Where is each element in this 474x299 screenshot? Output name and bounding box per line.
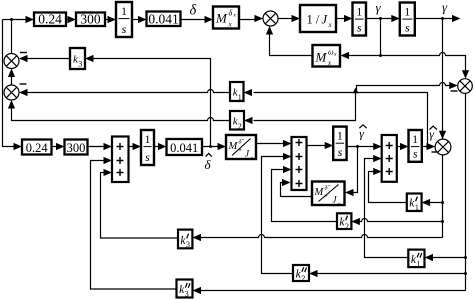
svg-text:x: x bbox=[337, 202, 341, 208]
node epsilon1-k1p junction bbox=[441, 201, 444, 204]
wire k2 output to S3 bottom with hop bbox=[12, 109, 231, 121]
arrow into integrator 1/s (roll rate) bbox=[344, 15, 353, 22]
block k3-doubleprime bbox=[177, 280, 193, 299]
summer S4 (angle comparator) bbox=[435, 139, 451, 155]
minus sign at S4 left input bbox=[432, 151, 439, 153]
wire epsilon2 to k2pp bbox=[318, 273, 466, 275]
wire k1pp output to adder A3 input 2 bbox=[365, 159, 409, 258]
block integrator 1/s (observer angle) bbox=[409, 130, 422, 162]
arrow into k2p input bbox=[351, 218, 360, 225]
block M_x^delta_x (control moment) bbox=[213, 7, 239, 29]
wire epsilon2 bottom to k3pp bbox=[201, 290, 466, 292]
block k2-prime bbox=[337, 213, 351, 231]
minus sign at S5 left input bbox=[451, 90, 458, 92]
arrow gamma output to right bbox=[452, 15, 461, 22]
arrow into A3 input 2 bbox=[373, 155, 382, 162]
block M^d/Jx observer control moment bbox=[226, 135, 256, 162]
block M^w/Jx observer damping moment bbox=[312, 182, 345, 208]
svg-text:2: 2 bbox=[301, 274, 305, 283]
svg-text:0.24: 0.24 bbox=[38, 12, 62, 27]
arrow into M/J block 1 bbox=[218, 143, 227, 150]
svg-text:M: M bbox=[215, 11, 228, 26]
arrow into block 0.24 (plant) bbox=[26, 16, 35, 23]
summer S2 (upper left) bbox=[4, 54, 19, 69]
svg-text:M: M bbox=[314, 187, 325, 198]
wire M/J1 output to adder A2 bbox=[256, 143, 284, 145]
svg-text:2: 2 bbox=[345, 222, 349, 231]
arrow into block 0.041 (plant) bbox=[138, 16, 147, 23]
svg-text:1: 1 bbox=[417, 259, 421, 268]
wire epsilon1 to k1p bbox=[430, 202, 443, 204]
wire to Mx^w input bbox=[348, 55, 381, 57]
arrow into A1 input 2 bbox=[104, 157, 113, 164]
wire gamma branch down into S4 bbox=[442, 19, 444, 132]
svg-text:1: 1 bbox=[337, 129, 343, 143]
wire Mx^w output to summer S1 bbox=[270, 34, 313, 56]
block k1-doubleprime bbox=[408, 250, 424, 269]
svg-text:300: 300 bbox=[80, 12, 101, 27]
svg-text:1: 1 bbox=[356, 5, 362, 19]
wire epsilon1 to k2p with hop bbox=[359, 219, 443, 222]
wire 0.24 to 300 bbox=[66, 19, 69, 21]
wire k2pp output to adder A2 input 2 bbox=[262, 157, 294, 274]
arrow into block Mx^dx bbox=[205, 16, 214, 23]
wire u-bus left vertical down to observer input bbox=[3, 20, 15, 147]
wire gamma-dot between integrators bbox=[366, 18, 393, 20]
arrow into integrator 1/s (observer rate) bbox=[325, 142, 334, 149]
svg-text:γ: γ bbox=[376, 0, 382, 15]
svg-text:1: 1 bbox=[415, 203, 419, 212]
arrow into adder A2 input 1 bbox=[283, 140, 292, 147]
block integrator 1/s (roll angle) bbox=[400, 3, 415, 36]
wire k3 output to S2 bbox=[27, 58, 70, 60]
arrow into summer S1 bottom bbox=[266, 26, 273, 35]
svg-text:δ: δ bbox=[190, 3, 197, 19]
node u junction at top-left bbox=[10, 18, 13, 21]
wire u-bus top horizontal bbox=[3, 19, 27, 21]
svg-text:x: x bbox=[250, 156, 254, 162]
wire bus branch to comparator S5 with hop bbox=[357, 83, 451, 93]
arrow into integrator 1/s (roll angle) bbox=[391, 15, 400, 22]
wire gamma-dot branch down bbox=[380, 19, 382, 56]
arrow into k1 input bbox=[244, 89, 253, 96]
wire Mx^dx to summer S1 bbox=[239, 19, 256, 21]
block 300 (plant gain) bbox=[76, 12, 105, 27]
arrow into block 0.24 (observer) bbox=[14, 143, 23, 150]
svg-text:1: 1 bbox=[404, 5, 410, 19]
svg-text:γ: γ bbox=[442, 0, 448, 15]
arrow into 0.041 (observer) bbox=[158, 143, 167, 150]
wire 1/Jx to rate integrator bbox=[336, 18, 346, 20]
svg-text:*: * bbox=[239, 149, 242, 155]
wire A2 to rate integrator (observer) bbox=[307, 145, 327, 147]
wire 0.24 to 300 (observer) bbox=[52, 146, 58, 148]
svg-text:0.24: 0.24 bbox=[26, 141, 49, 155]
node epsilon1-k2p junction bbox=[441, 220, 444, 223]
arrow into integrator 1/s (observer actuator) bbox=[133, 143, 142, 150]
block k3 bbox=[70, 48, 85, 69]
block k1-prime bbox=[407, 194, 422, 213]
block 0.041 (plant gain) bbox=[147, 12, 181, 27]
wire epsilon2 vertical from S5 bottom bbox=[465, 93, 467, 290]
svg-text:3: 3 bbox=[78, 60, 82, 69]
adder A1 (observer actuator sum) bbox=[112, 137, 129, 183]
block k2-doubleprime bbox=[293, 265, 309, 283]
arrow junction marker on bus bbox=[352, 88, 358, 93]
summer S3 (lower left) bbox=[4, 85, 19, 100]
node epsilon2-k1pp junction bbox=[464, 256, 467, 259]
block integrator 1/s (roll rate) bbox=[353, 3, 367, 36]
arrow into k1p input bbox=[422, 199, 431, 206]
node gamma-dot junction bbox=[379, 17, 382, 20]
block k2 bbox=[230, 111, 244, 131]
svg-text:1 /: 1 / bbox=[307, 13, 320, 27]
svg-text:1: 1 bbox=[121, 4, 127, 18]
minus sign at S3 bbox=[20, 83, 27, 85]
wire integrator to 0.041 (observer) bbox=[154, 146, 160, 148]
svg-text:s: s bbox=[145, 150, 150, 164]
svg-text:0.041: 0.041 bbox=[170, 141, 198, 155]
svg-text:300: 300 bbox=[67, 141, 86, 155]
arrow into adder A3 input 1 bbox=[373, 143, 382, 150]
wire k2p output to adder A2 input 3 bbox=[272, 170, 338, 222]
svg-text:3: 3 bbox=[185, 290, 189, 299]
arrow into S3 right bbox=[19, 89, 28, 96]
wire S2 output up to u-bus bbox=[11, 20, 13, 54]
arrow into S4 top bbox=[439, 131, 446, 140]
wire k3 input from delta-hat branch bbox=[93, 59, 211, 147]
svg-text:δ: δ bbox=[205, 157, 212, 172]
arrow into block 300 bbox=[68, 16, 77, 23]
wire epsilon2 to k1pp bbox=[433, 257, 466, 259]
svg-text:0.041: 0.041 bbox=[148, 12, 178, 27]
wire epsilon1 to k3p with hops bbox=[201, 235, 443, 238]
wire k1 output to S3 with hop bbox=[28, 90, 231, 93]
block integrator 1/s (observer actuator) bbox=[141, 130, 154, 165]
svg-text:s: s bbox=[413, 147, 418, 161]
wire 300 to actuator integrator bbox=[105, 19, 109, 21]
wire S3 output up into S2 bbox=[11, 77, 13, 85]
svg-text:x: x bbox=[333, 52, 337, 58]
wire 300 to adder A1 bbox=[88, 146, 105, 148]
arrow into comparator S4 left bbox=[427, 143, 436, 150]
arrow into M/J2 right side bbox=[345, 189, 354, 196]
wire delta from 0.041 to Mx^dx bbox=[181, 19, 207, 21]
wire k3pp output to adder A1 input 2 bbox=[91, 161, 177, 290]
arrow into k2pp input bbox=[309, 270, 318, 277]
svg-text:3: 3 bbox=[186, 240, 190, 249]
summer S5 (rate comparator) bbox=[458, 79, 473, 94]
svg-text:δ: δ bbox=[229, 9, 233, 18]
arrow into S3 bottom bbox=[8, 100, 15, 109]
wire M/J2 output to adder A2 input 4 bbox=[281, 183, 313, 197]
arrow into A1 input 3 bbox=[104, 169, 113, 176]
wire k3p output to adder A1 input 3 bbox=[101, 173, 179, 239]
arrow into S2 right bbox=[19, 55, 28, 62]
wire M/J2 input from gamma-dot-hat bbox=[353, 147, 358, 193]
wire gamma-hat bus up and left to k1 bbox=[254, 93, 428, 147]
block k1 bbox=[230, 82, 244, 102]
wire S1 to 1/Jx bbox=[278, 18, 293, 20]
arrow into k3pp input bbox=[193, 287, 202, 294]
adder A2 (observer moment sum) bbox=[292, 137, 307, 190]
wire gamma-dot to comparator S5 with hop bbox=[381, 53, 466, 73]
wire gamma-dot-hat to adder A3 bbox=[347, 146, 375, 148]
node gamma-hat junction bbox=[426, 145, 429, 148]
svg-text:s: s bbox=[122, 22, 127, 36]
wire delta-hat to M/J block bbox=[202, 146, 219, 148]
block M_x^omega_x (damping moment) bbox=[313, 45, 341, 67]
wire epsilon1 vertical from S4 bottom bbox=[442, 155, 444, 238]
arrow into k1pp input bbox=[425, 254, 434, 261]
svg-text:s: s bbox=[357, 20, 362, 34]
arrow into Mx^w bbox=[341, 52, 350, 59]
arrow into integrator 1/s (observer angle) bbox=[400, 143, 409, 150]
node epsilon2-k2pp junction bbox=[464, 272, 467, 275]
svg-text:1: 1 bbox=[238, 93, 242, 102]
node gamma junction bbox=[441, 17, 444, 20]
node gamma-dot-hat junction bbox=[356, 145, 359, 148]
adder A3 (observer rate correction sum) bbox=[382, 135, 397, 182]
node T junction gamma-dot branch bbox=[379, 54, 382, 57]
arrow into A2 input 2 bbox=[283, 153, 292, 160]
svg-text:2: 2 bbox=[238, 122, 242, 131]
block 0.041 (observer gain) bbox=[167, 139, 203, 155]
node delta-hat junction bbox=[209, 145, 212, 148]
block k3-prime bbox=[178, 230, 192, 250]
minus sign at S2 bbox=[20, 52, 27, 54]
svg-text:M: M bbox=[315, 50, 328, 65]
wire gamma output bbox=[415, 18, 453, 20]
block integrator 1/s (plant actuator) bbox=[116, 2, 132, 37]
arrow into adder A1 input 1 bbox=[104, 143, 113, 150]
wire integrator to 0.041 bbox=[132, 19, 139, 21]
svg-text:s: s bbox=[405, 20, 410, 34]
arrow into k3 input bbox=[85, 55, 94, 62]
wire A1 to observer integrator bbox=[129, 146, 135, 148]
block integrator 1/s (observer rate) bbox=[333, 127, 346, 160]
arrow into comparator S5 top bbox=[462, 70, 469, 79]
block 300 (observer gain) bbox=[65, 140, 88, 155]
arrow into S5 left bbox=[449, 82, 458, 89]
wire k1p output to adder A3 input 3 bbox=[369, 172, 407, 203]
svg-text:s: s bbox=[338, 145, 343, 159]
summer S1 (moment sum) bbox=[263, 11, 278, 26]
block 0.24 (plant gain) bbox=[34, 12, 66, 27]
wire gamma-hat to comparator S4 bbox=[422, 146, 429, 148]
arrow into k2 input bbox=[244, 117, 253, 124]
svg-text:x: x bbox=[233, 13, 237, 19]
svg-text:*: * bbox=[325, 195, 328, 201]
arrow into A2 input 3 bbox=[283, 166, 292, 173]
block 0.24 (observer gain) bbox=[22, 140, 52, 155]
arrow into A3 input 3 bbox=[373, 168, 382, 175]
arrow into A2 input 4 bbox=[282, 179, 291, 186]
block 1/J_x (inertia) bbox=[300, 5, 336, 32]
arrow into block 1/Jx bbox=[292, 15, 301, 22]
arrow into integrator 1/s (actuator) bbox=[108, 16, 117, 23]
svg-text:1: 1 bbox=[412, 132, 418, 146]
svg-text:γ: γ bbox=[359, 127, 364, 141]
svg-text:1: 1 bbox=[145, 132, 151, 146]
wire A3 to angle integrator (observer) bbox=[397, 146, 402, 148]
wire bus branch down to k2 bbox=[254, 93, 356, 121]
svg-text:M: M bbox=[228, 141, 239, 152]
arrow into S2 bottom bbox=[8, 69, 15, 78]
arrow into k3p input bbox=[192, 234, 201, 241]
arrow into summer S1 bbox=[255, 15, 264, 22]
arrow into 300 (observer) bbox=[56, 143, 65, 150]
